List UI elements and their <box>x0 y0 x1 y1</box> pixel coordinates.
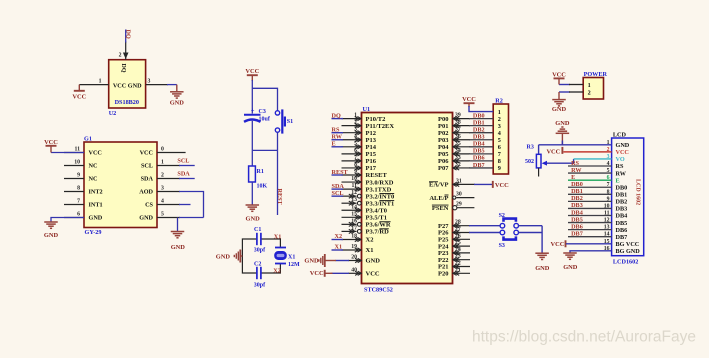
wire/net label DB2 (LCD pin 9) <box>568 200 612 202</box>
temperature sensor U2 DS18B20 <box>109 60 146 108</box>
svg-text:DB7: DB7 <box>571 231 583 238</box>
svg-text:SCL: SCL <box>177 158 189 165</box>
svg-text:30pf: 30pf <box>254 283 266 289</box>
svg-text:P04: P04 <box>438 144 449 151</box>
potentiometer R3 502 <box>538 145 540 155</box>
svg-text:VCC: VCC <box>72 94 86 101</box>
svg-text:INT1: INT1 <box>89 202 103 209</box>
svg-text:10uf: 10uf <box>259 117 271 123</box>
svg-text:E: E <box>571 174 575 181</box>
svg-text:DB1: DB1 <box>473 119 485 126</box>
svg-text:7: 7 <box>77 199 80 205</box>
svg-text:GND: GND <box>616 142 630 149</box>
resistor R1 10K <box>251 150 253 166</box>
svg-text:DB2: DB2 <box>571 195 583 202</box>
wire P01 to R2 / net label DB1 <box>469 125 493 127</box>
svg-text:1: 1 <box>161 160 164 166</box>
svg-text:DB3: DB3 <box>473 134 485 141</box>
svg-text:GND: GND <box>216 254 231 261</box>
svg-text:VCC: VCC <box>310 270 324 277</box>
svg-text:8: 8 <box>77 186 80 192</box>
svg-text:3: 3 <box>148 79 151 85</box>
svg-text:GND: GND <box>563 264 578 271</box>
power port VCC (U2 left, pointing down) <box>78 85 80 91</box>
svg-text:P14: P14 <box>366 144 377 151</box>
svg-text:X2: X2 <box>335 233 343 240</box>
svg-text:1: 1 <box>498 109 501 116</box>
svg-text:DB7: DB7 <box>473 162 485 169</box>
svg-text:2: 2 <box>119 53 122 59</box>
wire/net label X1 (U1 pin 19) <box>332 249 344 251</box>
POWER pin 2 wire <box>559 91 570 93</box>
svg-text:0: 0 <box>161 147 164 153</box>
svg-text:DB3: DB3 <box>616 206 628 213</box>
svg-text:SCL: SCL <box>332 190 344 197</box>
svg-text:P3.4/T0: P3.4/T0 <box>366 207 388 214</box>
svg-text:DB4: DB4 <box>571 209 583 216</box>
svg-text:DB2: DB2 <box>616 199 628 206</box>
svg-text:DB2: DB2 <box>473 127 485 134</box>
microcontroller U1 STC89C52 <box>362 113 453 284</box>
svg-text:U1: U1 <box>363 106 371 113</box>
wire/net label E (U1 pin 5) <box>332 146 344 148</box>
svg-text:502: 502 <box>525 159 534 165</box>
G1 VCC wire (pin 11) <box>51 152 84 154</box>
svg-text:VCC: VCC <box>140 150 153 157</box>
wire LCD pin3 VO (cyan) <box>574 158 612 160</box>
svg-text:STC89C52: STC89C52 <box>364 287 393 294</box>
svg-text:NC: NC <box>89 176 98 183</box>
wire C3 bottom <box>251 121 253 151</box>
wire/net label DB0 (LCD pin 7) <box>568 186 612 188</box>
svg-text:RW: RW <box>616 170 627 177</box>
svg-text:DB4: DB4 <box>616 213 628 220</box>
G1 SDA wire <box>157 178 180 180</box>
svg-text:1: 1 <box>99 79 102 85</box>
wire/net label DB3 (LCD pin 10) <box>568 207 612 209</box>
svg-text:RESET: RESET <box>366 172 388 179</box>
ground GND (crystal) <box>241 255 243 257</box>
wire/net label RS (LCD pin 4) <box>568 165 612 167</box>
wire P26 to S3 <box>469 232 500 234</box>
svg-text:DB3: DB3 <box>571 202 583 209</box>
wire LCD pin1 GND net <box>539 144 612 146</box>
svg-text:LCD1602: LCD1602 <box>613 258 638 265</box>
svg-text:S1: S1 <box>287 119 293 125</box>
wire/net label RW (LCD pin 5) <box>568 172 612 174</box>
svg-text:P3.2/INT0: P3.2/INT0 <box>366 193 395 200</box>
svg-text:VCC GND: VCC GND <box>113 82 142 89</box>
svg-text:X1: X1 <box>274 233 282 240</box>
svg-text:GND: GND <box>44 232 59 239</box>
wire LCD pin2 VCC (red) <box>563 151 611 153</box>
svg-text:S3: S3 <box>499 243 505 249</box>
wire/net label SDA (U1 pin 11) <box>332 188 344 190</box>
svg-text:12M: 12M <box>288 262 300 268</box>
svg-text:P3.0/RXD: P3.0/RXD <box>366 179 394 186</box>
G1 pin 0 stub <box>157 152 186 154</box>
svg-text:9: 9 <box>498 165 501 172</box>
wire/net label SCL (U1 pin 12) <box>332 195 344 197</box>
svg-text:P3.5/T1: P3.5/T1 <box>366 215 388 222</box>
svg-text:C3: C3 <box>259 109 266 115</box>
U2 pin 1 wire <box>79 84 108 86</box>
ground GND (U2 right) <box>176 85 178 92</box>
wire P03 to R2 / net label DB3 <box>469 139 493 141</box>
svg-text:8: 8 <box>498 158 501 165</box>
wire/net label DQ (U1 pin 1) <box>332 118 344 120</box>
ground GND (U1 pin 20) <box>325 260 336 262</box>
svg-text:X1: X1 <box>335 244 343 251</box>
svg-text:GND: GND <box>304 257 319 264</box>
svg-text:P20: P20 <box>438 271 448 278</box>
svg-text:GND: GND <box>89 215 103 222</box>
wire S1 bottom <box>277 132 279 150</box>
svg-text:RS: RS <box>332 127 340 134</box>
display LCD1602 <box>612 138 644 256</box>
wire/net label DB5 (LCD pin 12) <box>568 222 612 224</box>
svg-text:10: 10 <box>74 160 80 166</box>
wire/net label DB6 (LCD pin 13) <box>568 229 612 231</box>
svg-text:P12: P12 <box>366 130 376 137</box>
svg-text:GND: GND <box>555 120 570 127</box>
push button S3 <box>500 230 505 235</box>
svg-text:2: 2 <box>588 90 591 97</box>
wire/net label REST (U1 pin 9) <box>332 174 344 176</box>
crystal circuit wires <box>242 239 256 273</box>
svg-text:DB4: DB4 <box>473 141 485 148</box>
ground GND (reset circuit) <box>246 204 259 206</box>
wire P00 to R2 / net label DB0 <box>469 118 493 120</box>
svg-text:GND: GND <box>366 258 381 265</box>
svg-text:DB6: DB6 <box>616 227 628 234</box>
wire/net label RS (U1 pin 3) <box>332 132 344 134</box>
svg-text:DQ: DQ <box>124 30 131 39</box>
svg-text:X2: X2 <box>366 237 374 244</box>
svg-text:P3.1TXD: P3.1TXD <box>366 186 392 193</box>
svg-text:4: 4 <box>161 199 164 205</box>
svg-text:GND: GND <box>535 265 550 272</box>
svg-text:DB0: DB0 <box>616 184 628 191</box>
svg-text:P10/T2: P10/T2 <box>366 116 386 123</box>
svg-text:GND: GND <box>171 244 186 251</box>
svg-text:DB1: DB1 <box>571 188 583 195</box>
power port VCC (U1 pin 40) <box>325 272 332 274</box>
svg-text:SDA: SDA <box>141 176 154 183</box>
wire P02 to R2 / net label DB2 <box>469 132 493 134</box>
capacitor C1 30pf <box>256 233 258 245</box>
svg-text:DB7: DB7 <box>616 234 628 241</box>
svg-text:P03: P03 <box>438 137 449 144</box>
svg-text:P01: P01 <box>438 123 448 130</box>
G1 left pin 11 (VCC) <box>64 152 84 154</box>
svg-text:POWER: POWER <box>584 71 608 78</box>
svg-text:P02: P02 <box>438 130 448 137</box>
svg-text:X2: X2 <box>273 267 281 274</box>
svg-text:VCC: VCC <box>366 271 380 278</box>
svg-text:P3.3/INT1: P3.3/INT1 <box>366 200 395 207</box>
wire R3 wiper to VO <box>547 159 574 163</box>
svg-text:RW: RW <box>571 167 582 174</box>
svg-text:10K: 10K <box>257 184 268 190</box>
G1 pin5 GND wire <box>157 217 180 219</box>
svg-text:VCC: VCC <box>495 182 509 189</box>
G1 left pin 7 (INT1) <box>64 204 84 206</box>
svg-text:SCL: SCL <box>141 163 153 170</box>
wire VCC to C3 <box>251 80 253 114</box>
wire P04 to R2 / net label DB4 <box>469 146 493 148</box>
wire EA/VP to VCC <box>474 183 492 185</box>
ground GND (G1 bottom-left) <box>44 221 58 223</box>
svg-text:GY-29: GY-29 <box>85 229 102 236</box>
svg-text:REST: REST <box>332 169 349 176</box>
svg-text:P13: P13 <box>366 137 377 144</box>
svg-text:4: 4 <box>498 130 501 137</box>
svg-text:RW: RW <box>332 134 343 141</box>
svg-text:3: 3 <box>498 123 501 130</box>
svg-text:NC: NC <box>89 163 98 170</box>
wire P06 to R2 / net label DB6 <box>469 160 493 162</box>
svg-text:30: 30 <box>456 192 462 198</box>
svg-text:LCD 1602: LCD 1602 <box>634 179 640 205</box>
svg-text:11: 11 <box>75 147 81 153</box>
POWER pin 1 wire <box>559 84 570 86</box>
svg-text:DB0: DB0 <box>571 181 583 188</box>
svg-text:VCC: VCC <box>616 149 629 156</box>
wire P07 to R2 / net label DB7 <box>469 167 493 169</box>
wire/net label DB4 (LCD pin 11) <box>568 215 612 217</box>
svg-text:BG GND: BG GND <box>616 248 641 255</box>
U2 pin 2 wire <box>125 42 127 60</box>
G1 left pin 6 (GND) <box>64 217 84 219</box>
svg-text:P3.7/RD: P3.7/RD <box>366 229 390 236</box>
wire/net label DB1 (LCD pin 8) <box>568 193 612 195</box>
svg-text:P11/T2EX: P11/T2EX <box>366 123 395 130</box>
svg-text:R2: R2 <box>495 98 503 105</box>
svg-text:P3.6/WR: P3.6/WR <box>366 222 391 229</box>
svg-text:6: 6 <box>498 144 501 151</box>
svg-text:LCD: LCD <box>613 132 627 139</box>
svg-text:X1: X1 <box>366 247 374 254</box>
power port VCC (G1 top-left) <box>50 146 52 153</box>
G1 left pin 10 (NC) <box>64 165 84 167</box>
svg-text:+: + <box>251 107 255 114</box>
svg-text:5: 5 <box>498 137 501 144</box>
svg-text:AOD: AOD <box>139 189 153 196</box>
G1 left pin 9 (NC) <box>64 178 84 180</box>
wire/net label DB7 (LCD pin 14) <box>568 236 612 238</box>
svg-text:VCC: VCC <box>546 148 560 155</box>
svg-text:GND: GND <box>552 106 567 113</box>
svg-text:GND: GND <box>139 215 153 222</box>
svg-text:30pf: 30pf <box>254 248 266 254</box>
ground GND (S2/S3) <box>535 252 549 254</box>
svg-text:DB5: DB5 <box>473 148 485 155</box>
svg-text:DQ: DQ <box>332 112 341 119</box>
svg-text:RS: RS <box>616 163 624 170</box>
svg-text:6: 6 <box>77 212 80 218</box>
svg-text:DB0: DB0 <box>473 112 485 119</box>
svg-text:P15: P15 <box>366 151 377 158</box>
accelerometer G1 GY-29 <box>84 142 157 228</box>
svg-text:DB1: DB1 <box>616 191 628 198</box>
svg-text:EA/VP: EA/VP <box>429 182 449 189</box>
svg-text:SDA: SDA <box>177 171 190 178</box>
G1 left pin 8 (INT2) <box>64 191 84 193</box>
svg-text:5: 5 <box>161 212 164 218</box>
svg-text:DQ: DQ <box>120 64 126 73</box>
svg-text:9: 9 <box>77 173 80 179</box>
svg-text:VCC: VCC <box>462 96 476 103</box>
wire R1 to GND <box>251 182 253 205</box>
svg-text:DB5: DB5 <box>616 220 628 227</box>
svg-text:SDA: SDA <box>332 183 345 190</box>
capacitor C2 30pf <box>256 267 258 279</box>
wire branch to S1 <box>252 88 277 111</box>
svg-text:GND: GND <box>245 216 260 223</box>
G1 GND wire (pin 6) <box>51 218 84 222</box>
connector POWER <box>583 78 603 100</box>
R3 bottom stub <box>538 168 540 177</box>
svg-text:P05: P05 <box>438 151 449 158</box>
wire junction C3/S1/R1 <box>252 149 277 151</box>
svg-text:VCC: VCC <box>89 150 102 157</box>
G1 SCL wire <box>157 165 180 167</box>
ground GND (LCD pin 16) <box>563 252 577 254</box>
svg-text:U2: U2 <box>109 110 117 117</box>
wire/net label RW (U1 pin 4) <box>332 139 344 141</box>
svg-text:G1: G1 <box>84 136 92 143</box>
svg-text:CS: CS <box>145 202 153 209</box>
U2 pin 3 wire <box>146 84 168 86</box>
svg-text:https://blog.csdn.net/AuroraFa: https://blog.csdn.net/AuroraFaye <box>472 329 696 346</box>
push button S1 <box>275 111 279 115</box>
svg-text:R1: R1 <box>257 169 264 175</box>
svg-text:VCC: VCC <box>44 139 58 146</box>
svg-text:P00: P00 <box>438 116 448 123</box>
svg-text:REST: REST <box>276 189 283 206</box>
svg-text:3: 3 <box>161 186 164 192</box>
wire REST vertical <box>277 150 279 215</box>
net label DQ (top) <box>125 30 127 43</box>
svg-text:P17: P17 <box>366 165 377 172</box>
svg-text:C2: C2 <box>254 261 261 267</box>
wire LCD pin16 BG GND <box>570 251 612 253</box>
svg-text:PSEN: PSEN <box>432 205 449 212</box>
svg-text:1: 1 <box>588 82 591 89</box>
svg-text:INT2: INT2 <box>89 189 103 196</box>
power port VCC (EA/VP) <box>492 181 494 188</box>
wire VCC to R2 pin 1 <box>469 106 493 112</box>
ground GND (G1 right) <box>177 218 179 232</box>
svg-text:RS: RS <box>571 160 579 167</box>
svg-text:P06: P06 <box>438 158 449 165</box>
svg-text:DB6: DB6 <box>473 155 485 162</box>
capacitor C3 10uf (electrolytic) <box>244 114 261 116</box>
svg-text:VCC: VCC <box>245 68 259 75</box>
crystal X1 12M <box>275 247 286 249</box>
svg-text:DB5: DB5 <box>571 216 583 223</box>
svg-text:7: 7 <box>498 151 501 158</box>
svg-text:2: 2 <box>498 116 501 123</box>
G1 CS stub <box>157 204 180 206</box>
svg-text:E: E <box>332 141 336 148</box>
wire S2/S3 to GND <box>519 225 543 227</box>
G1 AOD wire to GND loop <box>157 191 180 193</box>
svg-text:DS18B20: DS18B20 <box>115 99 139 106</box>
ground GND (POWER) <box>558 92 560 99</box>
svg-text:BG VCC: BG VCC <box>616 241 640 248</box>
wire/net label E (LCD pin 6, green) <box>568 179 612 181</box>
resistor network R2 <box>493 104 508 174</box>
wire P05 to R2 / net label DB5 <box>469 153 493 155</box>
svg-text:X1: X1 <box>288 254 295 260</box>
svg-text:P07: P07 <box>438 165 449 172</box>
svg-text:VCC: VCC <box>551 241 565 248</box>
svg-text:ALE/P: ALE/P <box>429 195 448 202</box>
svg-text:P16: P16 <box>366 158 377 165</box>
svg-text:R3: R3 <box>527 144 534 150</box>
wire/net label X2 (U1 pin 18) <box>332 239 344 241</box>
svg-text:E: E <box>616 177 620 184</box>
svg-text:VO: VO <box>616 156 625 163</box>
wire P27 to S2 <box>469 225 500 227</box>
svg-text:GND: GND <box>170 100 185 107</box>
svg-text:C1: C1 <box>254 227 261 233</box>
svg-text:DB6: DB6 <box>571 223 583 230</box>
svg-text:2: 2 <box>161 173 164 179</box>
